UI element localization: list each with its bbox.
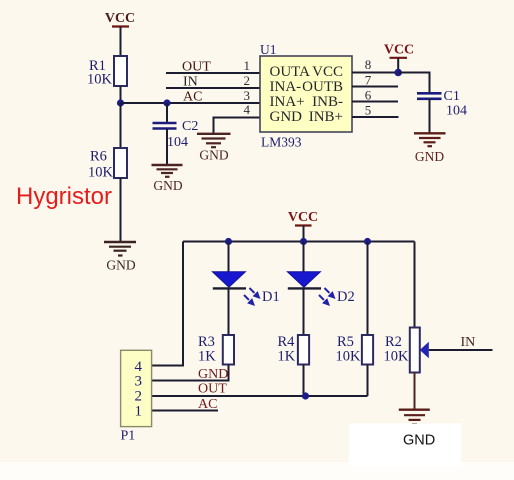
svg-text:INA-: INA-	[270, 79, 302, 95]
R2 wiper arrow	[420, 342, 429, 358]
svg-text:1K: 1K	[278, 349, 296, 365]
node rail/R5	[364, 238, 371, 245]
resistor R2 potentiometer	[384, 328, 420, 373]
power VCC (top left)	[105, 11, 135, 27]
power VCC (bottom rail)	[288, 210, 318, 242]
svg-text:10K: 10K	[384, 349, 410, 365]
wire rail to LED D2	[303, 242, 305, 273]
svg-text:GND: GND	[415, 149, 444, 164]
node A junction R1/R6/AC	[117, 99, 124, 106]
wire R1 to node A	[120, 86, 122, 103]
svg-text:1K: 1K	[198, 349, 216, 365]
svg-text:VCC: VCC	[105, 11, 135, 26]
svg-text:OUT: OUT	[198, 382, 227, 397]
wire P1 pin1 AC stub	[152, 410, 218, 412]
LED D2	[287, 272, 354, 306]
LED D1	[212, 272, 279, 306]
wire IN net to U1 pin2	[166, 87, 260, 89]
svg-text:6: 6	[365, 88, 372, 103]
wire rail right drop to R2	[414, 242, 416, 328]
wire R2 to ground	[414, 373, 416, 410]
svg-text:7: 7	[365, 73, 372, 88]
wire D1 to R3	[228, 288, 230, 335]
svg-text:D2: D2	[337, 289, 355, 305]
svg-text:GND: GND	[198, 367, 228, 382]
wire C1 to ground	[429, 99, 431, 134]
capacitor C2	[153, 119, 199, 150]
node C2 tap	[163, 99, 170, 106]
op-amp U1 LM393	[244, 42, 372, 150]
svg-text:2: 2	[135, 389, 143, 405]
svg-text:AC: AC	[198, 397, 217, 412]
wire U1 pin4 to ground	[214, 118, 261, 134]
ground GND2 (below C2)	[152, 165, 183, 193]
svg-text:5: 5	[365, 103, 372, 118]
ground GND4 (C1)	[414, 133, 446, 164]
svg-text:GND: GND	[106, 258, 135, 273]
svg-text:1: 1	[244, 58, 251, 73]
wire U1 pin7 stub	[352, 86, 398, 88]
wire node A to U1 pin3	[121, 102, 261, 104]
wire R3 to P1 pin3	[152, 365, 229, 381]
wire C2 to ground	[166, 129, 168, 166]
wire node A to R6	[120, 103, 122, 148]
svg-text:GND: GND	[403, 433, 435, 449]
svg-text:10K: 10K	[87, 72, 113, 88]
wire VCC rail	[183, 241, 415, 243]
wire R5 to OUT net	[367, 365, 369, 397]
wire U1 pin6 stub	[352, 101, 398, 103]
svg-text:10K: 10K	[88, 165, 114, 181]
wire R4 to OUT net	[303, 365, 305, 397]
svg-text:INB+: INB+	[309, 109, 343, 125]
ground GND1 (left)	[104, 242, 136, 273]
svg-text:2: 2	[244, 73, 251, 88]
wire R6 to ground	[120, 178, 122, 242]
resistor R1	[87, 56, 127, 88]
wire U1 pin8 to VCC node	[352, 72, 398, 74]
svg-text:INA+: INA+	[270, 94, 305, 110]
svg-text:VCC: VCC	[312, 64, 343, 80]
svg-text:104: 104	[446, 104, 467, 119]
svg-text:VCC: VCC	[288, 210, 318, 225]
wire D2 to R4	[303, 288, 305, 335]
svg-text:C2: C2	[182, 119, 198, 134]
ground GND3 (U1 pin4)	[197, 134, 231, 163]
svg-text:3: 3	[135, 374, 143, 390]
node rail/VCC/D2	[300, 238, 307, 245]
connector P1	[121, 350, 152, 443]
svg-text:Hygristor: Hygristor	[16, 183, 112, 210]
resistor R4	[278, 334, 310, 365]
svg-text:U1: U1	[260, 42, 277, 57]
wire VCC node to C1	[398, 73, 429, 94]
node OUT/R4	[302, 392, 309, 399]
svg-text:VCC: VCC	[384, 43, 414, 58]
svg-text:4: 4	[244, 102, 251, 117]
resistor R3	[198, 334, 234, 365]
svg-text:GND: GND	[153, 178, 182, 193]
svg-text:1: 1	[135, 404, 143, 420]
capacitor C1	[417, 89, 467, 119]
svg-text:P1: P1	[121, 429, 136, 444]
svg-text:8: 8	[365, 57, 372, 72]
svg-text:10K: 10K	[336, 349, 362, 365]
svg-text:OUTA: OUTA	[270, 64, 311, 80]
svg-text:C1: C1	[444, 89, 460, 104]
svg-text:OUTB: OUTB	[302, 79, 343, 95]
svg-text:INB-: INB-	[312, 94, 343, 110]
svg-text:IN: IN	[461, 335, 476, 350]
resistor R5	[336, 334, 374, 365]
svg-text:GND: GND	[270, 109, 303, 125]
wire C2 tap down to C2	[166, 103, 168, 123]
svg-text:R6: R6	[90, 149, 107, 165]
svg-text:GND: GND	[199, 148, 228, 163]
wire P1 pin2 OUT net	[152, 395, 368, 397]
svg-text:3: 3	[244, 88, 251, 103]
wire rail to LED D1	[228, 242, 230, 273]
svg-text:D1: D1	[262, 289, 280, 305]
node rail/D1	[225, 238, 232, 245]
wire U1 pin5 stub	[352, 116, 399, 118]
wire rail to R5	[367, 242, 369, 336]
power VCC (right)	[384, 43, 414, 73]
svg-text:LM393: LM393	[261, 135, 302, 150]
resistor R6	[88, 148, 127, 181]
ground GND5 (R2)	[399, 410, 430, 425]
wire OUT net to U1 pin1	[166, 72, 260, 74]
wire IN to wiper	[429, 349, 493, 351]
wire VCC to R1	[120, 27, 122, 57]
white patch	[349, 424, 461, 467]
svg-text:104: 104	[167, 135, 188, 150]
wire P1 pin4 up to rail	[152, 242, 183, 366]
node VCC/C1	[394, 69, 402, 77]
